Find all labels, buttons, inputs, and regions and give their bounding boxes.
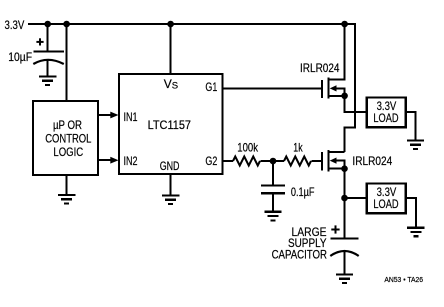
wire C1 to ground <box>47 61 49 77</box>
ground below load1 <box>407 141 424 150</box>
svg-text:IN1: IN1 <box>124 110 138 124</box>
wire C3 to ground <box>344 252 346 275</box>
block 3.3V LOAD 1 <box>367 98 406 128</box>
svg-text:µP OR: µP OR <box>53 118 82 132</box>
wire load2 to ground <box>406 198 416 228</box>
wire C2 top <box>272 161 274 185</box>
wire uP supply drop <box>66 24 68 101</box>
svg-text:CAPACITOR: CAPACITOR <box>272 248 328 262</box>
resistor R1 100k <box>233 140 260 165</box>
block 3.3V LOAD 2 <box>367 184 406 214</box>
svg-text:3.3V: 3.3V <box>5 18 25 32</box>
svg-text:100k: 100k <box>237 140 258 154</box>
wire Q1 source to load1 <box>345 96 366 112</box>
svg-text:AN53 • TA26: AN53 • TA26 <box>384 277 423 284</box>
svg-text:LTC1157: LTC1157 <box>148 118 192 132</box>
wire 3.3V rail <box>28 23 355 25</box>
node Q2 source junction <box>341 165 348 172</box>
wire IN2 with arrowhead <box>98 157 119 164</box>
ground below U1 <box>162 195 179 204</box>
wire VS <box>170 24 172 74</box>
svg-text:0.1µF: 0.1µF <box>291 185 315 199</box>
svg-text:IRLR024: IRLR024 <box>300 61 340 75</box>
wire R1 to R2 <box>260 160 284 162</box>
ground below C3 <box>336 275 353 284</box>
wire IN1 with arrowhead <box>98 112 119 119</box>
wire uP to ground <box>66 175 68 195</box>
svg-text:1k: 1k <box>293 140 303 154</box>
node junction dot C2 <box>270 158 277 165</box>
svg-text:GND: GND <box>160 159 180 173</box>
wire load1 to ground <box>406 112 416 141</box>
svg-text:LOAD: LOAD <box>373 111 398 125</box>
wire G2 out <box>223 160 234 162</box>
node Q1 source junction <box>341 93 348 100</box>
svg-text:IRLR024: IRLR024 <box>352 154 392 168</box>
svg-text:G2: G2 <box>205 154 217 168</box>
svg-text:10µF: 10µF <box>8 50 32 64</box>
wire C1 top <box>47 24 49 51</box>
svg-text:S: S <box>172 81 178 92</box>
svg-text:LOGIC: LOGIC <box>53 145 83 159</box>
capacitor C3 large supply <box>272 225 359 262</box>
svg-text:V: V <box>164 77 172 91</box>
capacitor C2 0.1uF <box>261 185 315 199</box>
svg-text:IN2: IN2 <box>124 154 138 168</box>
node junction dot C1 <box>44 21 51 28</box>
IC U1 LTC1157 <box>119 74 223 174</box>
wire Q2 source down to C3 <box>344 169 346 239</box>
node junction dot uP supply <box>63 21 70 28</box>
ground below C1 <box>39 77 56 86</box>
wire rail drop to Q2 drain <box>344 23 355 152</box>
wire to load2 <box>345 197 367 199</box>
svg-text:G1: G1 <box>205 80 217 94</box>
transistor Q1 IRLR024 <box>300 24 345 99</box>
resistor R2 1k <box>284 140 311 165</box>
transistor Q2 IRLR024 <box>322 150 392 171</box>
svg-text:CONTROL: CONTROL <box>45 132 91 146</box>
wire C2 to ground <box>272 193 274 212</box>
ground below load2 <box>407 228 424 237</box>
svg-text:LOAD: LOAD <box>373 197 398 211</box>
wire G1 to Q1 gate <box>223 87 323 89</box>
capacitor C1 10uF <box>8 38 64 64</box>
node junction dot Q1 drain <box>341 21 348 28</box>
node junction dot load2 <box>341 195 348 202</box>
wire R2 to Q2 gate <box>311 160 322 162</box>
wire GND pin <box>170 174 172 195</box>
ground below C2 <box>264 212 281 221</box>
ground below uP block <box>58 195 75 204</box>
node junction dot VS <box>167 21 174 28</box>
block uP OR CONTROL LOGIC <box>33 101 98 175</box>
